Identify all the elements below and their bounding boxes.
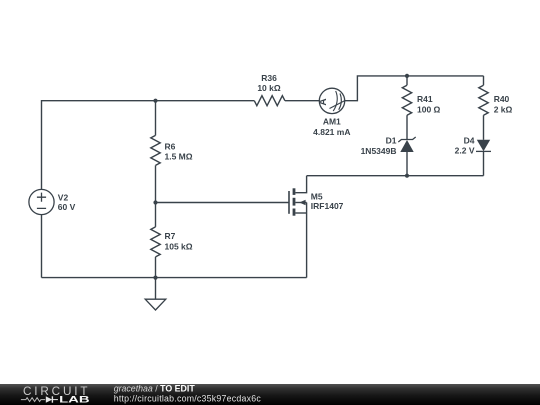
svg-text:10 kΩ: 10 kΩ: [257, 83, 281, 93]
svg-text:AM1: AM1: [323, 117, 341, 127]
svg-text:http://circuitlab.com/c35k97ec: http://circuitlab.com/c35k97ecdax6c: [114, 394, 262, 404]
svg-text:D4: D4: [464, 135, 475, 145]
svg-text:gracethaa / TO EDIT: gracethaa / TO EDIT: [114, 384, 196, 394]
svg-text:100 Ω: 100 Ω: [417, 105, 441, 115]
svg-text:2 kΩ: 2 kΩ: [494, 105, 513, 115]
svg-text:2.2 V: 2.2 V: [455, 146, 475, 156]
svg-text:R41: R41: [417, 94, 433, 104]
svg-text:D1: D1: [386, 136, 397, 146]
svg-text:R40: R40: [494, 94, 510, 104]
svg-text:60 V: 60 V: [58, 202, 76, 212]
svg-text:1N5349B: 1N5349B: [361, 146, 397, 156]
svg-text:R6: R6: [165, 141, 176, 151]
svg-text:R7: R7: [165, 231, 176, 241]
svg-text:M5: M5: [311, 191, 323, 201]
svg-text:4.821 mA: 4.821 mA: [313, 127, 350, 137]
svg-text:A: A: [318, 98, 329, 105]
svg-text:R36: R36: [261, 73, 277, 83]
svg-text:1.5 MΩ: 1.5 MΩ: [165, 152, 193, 162]
svg-text:105 kΩ: 105 kΩ: [165, 241, 193, 251]
svg-text:IRF1407: IRF1407: [311, 201, 344, 211]
svg-text:LAB: LAB: [59, 395, 90, 405]
